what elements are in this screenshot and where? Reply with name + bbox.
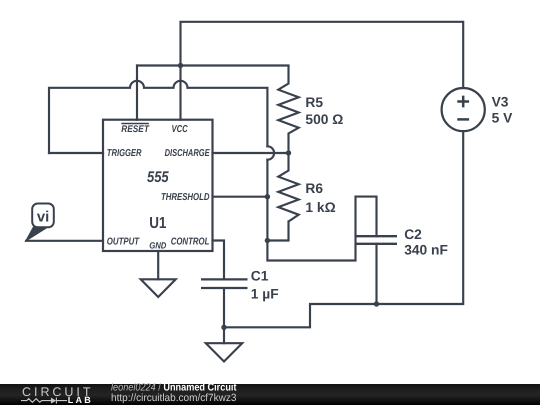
- svg-text:R5: R5: [305, 95, 323, 110]
- svg-text:GND: GND: [149, 241, 167, 251]
- wire trigger net horizontal with hops: [49, 81, 267, 153]
- wire GND pin lead: [157, 251, 159, 279]
- wire bottom return net to V3 minus: [224, 131, 463, 327]
- wire R6 bottom to node: [267, 222, 288, 241]
- ground (under U1 GND pin): [141, 279, 176, 297]
- svg-text:C1: C1: [251, 269, 269, 284]
- svg-text:U1: U1: [149, 215, 166, 232]
- svg-text:TRIGGER: TRIGGER: [107, 148, 142, 159]
- node junction dots: [178, 63, 379, 330]
- svg-text:OUTPUT: OUTPUT: [107, 236, 140, 247]
- svg-text:1 µF: 1 µF: [251, 287, 279, 302]
- wire RESET pin vertical: [136, 66, 138, 120]
- wire VCC pin vertical: [179, 66, 181, 120]
- wire TRIGGER pin: [49, 152, 103, 154]
- node vi flag: [26, 204, 54, 241]
- wire C2 bottom lead: [375, 244, 377, 304]
- node threshold: [265, 194, 270, 199]
- wire OUTPUT pin: [26, 240, 103, 242]
- svg-text:5 V: 5 V: [492, 110, 514, 125]
- wire ground2 lead: [223, 327, 225, 343]
- capacitor C2: [356, 236, 398, 244]
- resistor R5: [278, 66, 298, 154]
- svg-text:R6: R6: [305, 181, 323, 196]
- svg-text:500 Ω: 500 Ω: [305, 112, 343, 127]
- wire DISCHARGE pin: [213, 152, 289, 154]
- wire hop over discharge: [267, 146, 274, 159]
- node discharge / R5-R6: [286, 150, 291, 155]
- svg-text:DISCHARGE: DISCHARGE: [165, 148, 210, 159]
- wire THRESHOLD pin: [213, 196, 268, 198]
- svg-text:340 nF: 340 nF: [404, 243, 448, 258]
- svg-text:VCC: VCC: [172, 124, 189, 135]
- node trigger / R6 bottom: [265, 238, 270, 243]
- svg-text:vi: vi: [37, 208, 49, 225]
- wire trigger net vertical continuing to C2: [267, 160, 376, 261]
- node C2 bottom / return: [374, 301, 379, 306]
- op-amp U1 555 timer box: [103, 120, 213, 251]
- svg-text:V3: V3: [492, 95, 509, 110]
- resistor R6: [278, 153, 298, 222]
- svg-text:LAB: LAB: [68, 395, 92, 405]
- svg-text:1 kΩ: 1 kΩ: [305, 200, 335, 215]
- svg-text:http://circuitlab.com/cf7kwz3: http://circuitlab.com/cf7kwz3: [111, 392, 237, 404]
- svg-text:555: 555: [147, 169, 169, 186]
- svg-text:RESET: RESET: [121, 124, 150, 135]
- wire C1 bottom to ground node: [223, 288, 225, 327]
- logo resistor squiggle and diode: [21, 398, 67, 404]
- voltage source V3: [442, 88, 485, 131]
- ground (bottom net): [206, 343, 242, 361]
- wire CONTROL pin to C1: [213, 241, 225, 280]
- svg-text:THRESHOLD: THRESHOLD: [161, 192, 210, 203]
- svg-text:C2: C2: [404, 227, 422, 242]
- wire vcc rail y=65.5: [137, 64, 289, 66]
- svg-text:CONTROL: CONTROL: [171, 236, 210, 247]
- capacitor C1: [201, 279, 248, 288]
- node C1 bottom / ground: [221, 325, 226, 330]
- node vcc rail / V3 top: [178, 63, 183, 68]
- wire top V+ rail: [181, 22, 464, 88]
